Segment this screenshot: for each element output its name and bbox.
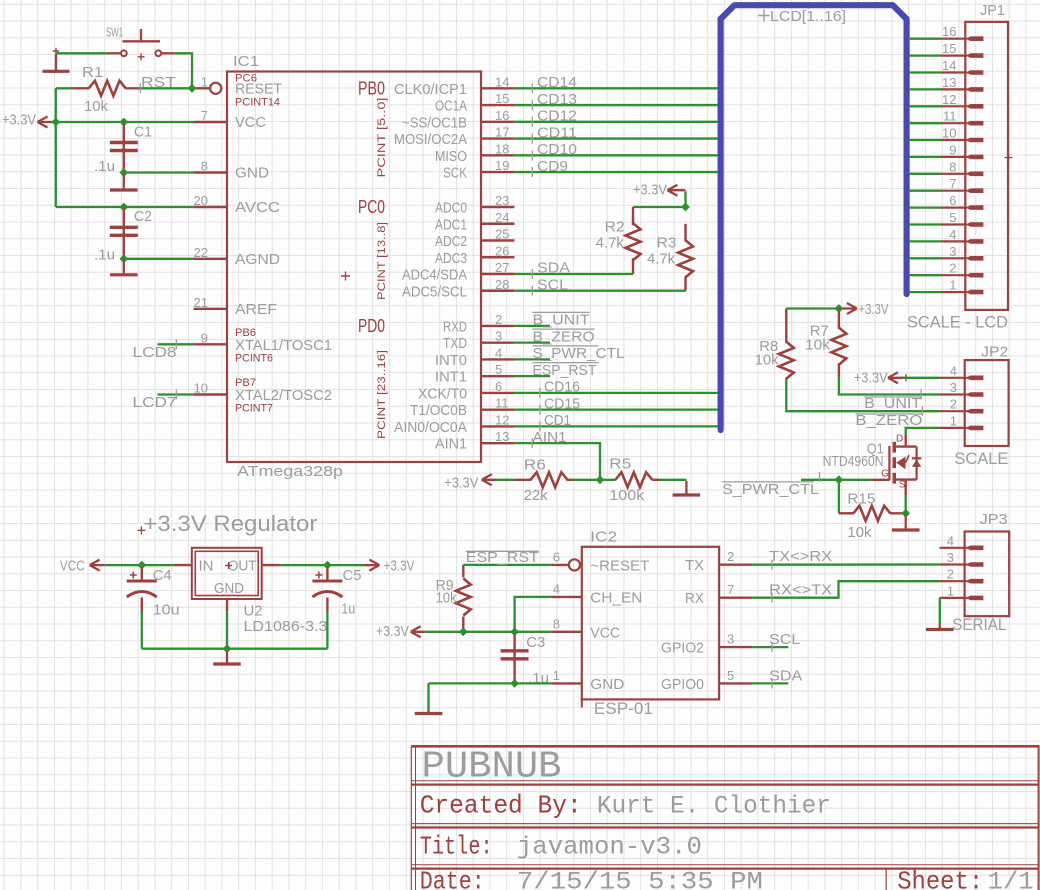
IC2 pin 5 stub bbox=[719, 682, 752, 684]
wire R8 to B_ZERO bbox=[786, 379, 939, 411]
svg-text:24: 24 bbox=[495, 210, 509, 225]
supply +3.3V arrow above R7 bbox=[842, 303, 857, 314]
IC2 pin 3 stub bbox=[719, 646, 752, 648]
svg-text:4: 4 bbox=[949, 227, 956, 242]
svg-text:Title:: Title: bbox=[420, 832, 493, 862]
svg-text:ADC2: ADC2 bbox=[435, 233, 467, 250]
svg-text:GND: GND bbox=[590, 676, 624, 693]
svg-text:ESP-01: ESP-01 bbox=[594, 699, 653, 718]
svg-text:PCINT [23..16]: PCINT [23..16] bbox=[376, 350, 388, 439]
wire SDA at IC2 bbox=[752, 682, 788, 684]
wire R6-R5 bbox=[573, 479, 616, 481]
svg-text:1: 1 bbox=[947, 583, 954, 598]
svg-text:10k: 10k bbox=[755, 352, 779, 369]
JP1 origin cross bbox=[1005, 154, 1013, 162]
svg-text:3: 3 bbox=[947, 550, 954, 565]
SW1 left pin stub bbox=[107, 52, 120, 54]
wire CD14 bbox=[514, 87, 717, 89]
svg-text:CH_EN: CH_EN bbox=[590, 589, 642, 606]
svg-text:6: 6 bbox=[495, 379, 502, 394]
IC1 pin 4 stub bbox=[481, 358, 514, 360]
wire CD11 bbox=[514, 137, 717, 139]
svg-text:10: 10 bbox=[942, 126, 956, 141]
svg-text:23: 23 bbox=[495, 193, 509, 208]
wire S_PWR_CTL bbox=[514, 358, 550, 360]
IC1 pin 25 stub bbox=[481, 239, 514, 241]
svg-text:AIN0/OC0A: AIN0/OC0A bbox=[394, 419, 467, 436]
svg-text:LCD7: LCD7 bbox=[133, 394, 177, 411]
junction AIN1 divider bbox=[596, 475, 605, 484]
wire LCD7 bbox=[158, 393, 194, 395]
wire U2 OUT bbox=[281, 564, 369, 566]
svg-text:18: 18 bbox=[495, 141, 509, 156]
svg-text:SCL: SCL bbox=[537, 276, 568, 293]
svg-text:2: 2 bbox=[495, 312, 502, 327]
svg-text:17: 17 bbox=[495, 125, 509, 140]
svg-text:4.7k: 4.7k bbox=[596, 235, 624, 252]
svg-text:OC1A: OC1A bbox=[435, 98, 467, 115]
IC2 pin 8 stub bbox=[552, 631, 582, 633]
junction C3/GND row bbox=[510, 679, 519, 688]
IC1 pin 5 stub bbox=[481, 375, 514, 377]
IC1 pin 10 stub bbox=[194, 393, 227, 395]
svg-text:PCINT [5..0]: PCINT [5..0] bbox=[376, 98, 388, 178]
svg-text:PCINT7: PCINT7 bbox=[235, 403, 273, 415]
JP1 pin 11 bbox=[941, 122, 967, 124]
ground at R5 bbox=[685, 481, 687, 495]
svg-text:U2: U2 bbox=[244, 603, 263, 620]
wire CD16 bbox=[514, 392, 717, 394]
JP1 pin 4 bbox=[941, 240, 967, 242]
svg-text:S: S bbox=[899, 479, 906, 490]
JP3 pin 1 bbox=[940, 597, 968, 599]
regulator U2 box bbox=[192, 548, 262, 599]
svg-text:C5: C5 bbox=[343, 567, 362, 584]
ground below Q1 bbox=[905, 515, 907, 531]
IC1 origin cross bbox=[341, 272, 350, 281]
svg-text:16: 16 bbox=[942, 24, 956, 39]
svg-text:~SS/OC1B: ~SS/OC1B bbox=[402, 114, 467, 131]
svg-text:.1u: .1u bbox=[94, 247, 115, 264]
wire RST right bbox=[140, 87, 194, 89]
wire bus to JP1 pin 3 bbox=[909, 257, 942, 259]
svg-text:1: 1 bbox=[950, 413, 957, 428]
IC1 pin 13 stub bbox=[481, 442, 514, 444]
svg-text:1: 1 bbox=[201, 74, 208, 89]
svg-text:PD0: PD0 bbox=[358, 316, 385, 336]
wire CD1 bbox=[514, 425, 717, 427]
svg-text:GND: GND bbox=[214, 580, 244, 597]
svg-text:22: 22 bbox=[194, 245, 208, 260]
svg-text:B_UNIT: B_UNIT bbox=[864, 395, 921, 412]
svg-text:Date:: Date: bbox=[420, 867, 485, 890]
resistor R9 bbox=[462, 565, 464, 578]
wire bus to JP1 pin 1 bbox=[909, 291, 942, 293]
wire CH_EN bbox=[515, 597, 552, 632]
wire B_ZERO bbox=[514, 341, 550, 343]
svg-text:MOSI/OC2A: MOSI/OC2A bbox=[394, 131, 467, 148]
IC1 pin 1 stub with inversion circle bbox=[194, 87, 210, 89]
svg-text:+3.3V: +3.3V bbox=[376, 623, 409, 640]
svg-text:27: 27 bbox=[495, 260, 509, 275]
svg-text:3: 3 bbox=[950, 380, 957, 395]
U2 pin IN stub bbox=[174, 564, 192, 566]
IC2 pin 2 stub bbox=[719, 564, 752, 566]
svg-text:NTD4960N: NTD4960N bbox=[823, 453, 884, 470]
JP3 pin 3 bbox=[940, 563, 968, 565]
svg-text:AGND: AGND bbox=[235, 251, 280, 268]
JP1 pin 12 bbox=[941, 105, 967, 107]
wire +3.3V IC2 VCC row bbox=[426, 631, 552, 633]
svg-text:RST: RST bbox=[141, 74, 176, 91]
wire ESP_RST to IC2 bbox=[463, 564, 552, 566]
capacitor C3 bbox=[513, 634, 515, 682]
svg-text:2: 2 bbox=[949, 261, 956, 276]
svg-text:ADC3: ADC3 bbox=[435, 250, 467, 267]
svg-text:9: 9 bbox=[949, 142, 956, 157]
svg-text:13: 13 bbox=[495, 429, 509, 444]
JP2 pin 3 bbox=[940, 393, 968, 395]
JP1 pin 7 bbox=[941, 190, 967, 192]
svg-text:2: 2 bbox=[950, 397, 957, 412]
svg-text:LD1086-3.3: LD1086-3.3 bbox=[244, 618, 328, 635]
svg-text:AREF: AREF bbox=[235, 301, 277, 318]
wire GND row down bbox=[427, 683, 429, 710]
junction OUT/C5 bbox=[323, 561, 332, 570]
svg-text:PCINT14: PCINT14 bbox=[235, 97, 280, 109]
svg-text:RXD: RXD bbox=[443, 318, 467, 335]
svg-text:S_PWR_CTL: S_PWR_CTL bbox=[533, 345, 625, 362]
svg-text:26: 26 bbox=[495, 243, 509, 258]
svg-text:CD12: CD12 bbox=[537, 108, 577, 125]
supply VCC arrow bbox=[90, 560, 105, 571]
wire LCD8 bbox=[158, 343, 194, 345]
wire bus to JP1 pin 7 bbox=[909, 190, 942, 192]
wire RX<>TX bbox=[752, 581, 939, 598]
svg-text:+3.3V Regulator: +3.3V Regulator bbox=[143, 511, 317, 536]
svg-text:3: 3 bbox=[727, 632, 734, 647]
svg-text:15: 15 bbox=[495, 91, 509, 106]
wire bus to JP1 pin 11 bbox=[909, 122, 942, 124]
svg-text:PC0: PC0 bbox=[358, 197, 385, 217]
svg-text:7: 7 bbox=[201, 108, 208, 123]
svg-text:Sheet:: Sheet: bbox=[897, 867, 983, 890]
svg-text:11: 11 bbox=[943, 109, 957, 124]
resistor R8 bbox=[785, 309, 787, 343]
svg-text:.1u: .1u bbox=[94, 158, 115, 175]
svg-text:D: D bbox=[896, 434, 903, 445]
resistor R7 bbox=[838, 309, 840, 329]
wire R5 to ground bbox=[660, 479, 686, 481]
IC1 pin 11 stub bbox=[481, 408, 514, 410]
svg-text:CD9: CD9 bbox=[537, 158, 568, 175]
svg-text:SERIAL: SERIAL bbox=[952, 615, 1006, 634]
svg-text:C1: C1 bbox=[134, 124, 152, 141]
JP2 pin 4 bbox=[940, 377, 968, 379]
svg-text:R2: R2 bbox=[605, 219, 625, 236]
IC1 pin 21 stub bbox=[194, 308, 227, 310]
wire JP3 pin1 to ground bbox=[939, 598, 941, 625]
svg-text:CD16: CD16 bbox=[544, 379, 580, 396]
svg-text:1: 1 bbox=[553, 668, 560, 683]
wire U2 GND down bbox=[226, 611, 228, 649]
junction gate/R15 bbox=[835, 475, 844, 484]
svg-text:R6: R6 bbox=[524, 456, 546, 473]
supply +3.3V arrow at VCC bbox=[38, 117, 53, 128]
IC1 pin 17 stub bbox=[481, 137, 514, 139]
JP1 pin 6 bbox=[941, 207, 967, 209]
svg-text:RESET: RESET bbox=[235, 81, 282, 98]
wire bus to JP1 pin 8 bbox=[909, 173, 942, 175]
junction VCC/left rail bbox=[51, 118, 60, 127]
svg-text:ATmega328p: ATmega328p bbox=[237, 463, 343, 480]
JP1 pin 13 bbox=[941, 88, 967, 90]
wire bus to JP1 pin 13 bbox=[909, 88, 942, 90]
IC2 pin 6 stub with inversion circle bbox=[552, 564, 568, 566]
junction R9/VCC row bbox=[459, 627, 468, 636]
IC1 pin 14 stub bbox=[481, 87, 514, 89]
svg-text:IC1: IC1 bbox=[233, 53, 259, 70]
wire bus to JP1 pin 6 bbox=[909, 206, 942, 208]
ground below U2 bbox=[226, 650, 228, 664]
ground at SW1 bbox=[55, 54, 57, 71]
svg-text:4: 4 bbox=[495, 345, 502, 360]
svg-text:+3.3V: +3.3V bbox=[384, 558, 415, 575]
IC1 pin 20 stub bbox=[194, 206, 227, 208]
svg-text:14: 14 bbox=[942, 58, 956, 73]
svg-text:javamon-v3.0: javamon-v3.0 bbox=[517, 833, 702, 862]
JP3 pin 4 bbox=[940, 547, 968, 549]
wire CD12 bbox=[514, 121, 717, 123]
IC1 pin 12 stub bbox=[481, 425, 514, 427]
svg-text:RX<>TX: RX<>TX bbox=[769, 582, 832, 599]
resistor R3 bbox=[684, 224, 686, 242]
svg-text:ADC1: ADC1 bbox=[435, 216, 467, 233]
svg-text:R15: R15 bbox=[847, 490, 875, 507]
svg-text:INT1: INT1 bbox=[435, 369, 467, 386]
ground at JP3 bbox=[939, 625, 941, 630]
svg-text:3: 3 bbox=[495, 329, 502, 344]
svg-text:XCK/T0: XCK/T0 bbox=[418, 385, 467, 402]
svg-text:PB0: PB0 bbox=[358, 78, 385, 98]
svg-text:21: 21 bbox=[194, 295, 208, 310]
IC1 pin 18 stub bbox=[481, 154, 514, 156]
JP1 pin 1 bbox=[941, 291, 967, 293]
switch SW1 bbox=[121, 50, 127, 56]
resistor R15 bbox=[839, 512, 854, 514]
svg-text:GPIO0: GPIO0 bbox=[661, 676, 704, 693]
wire SDA bbox=[514, 273, 633, 275]
svg-text:TXD: TXD bbox=[443, 335, 467, 352]
svg-text:7/15/15 5:35 PM: 7/15/15 5:35 PM bbox=[517, 868, 763, 890]
svg-text:1: 1 bbox=[949, 278, 956, 293]
svg-text:ADC5/SCL: ADC5/SCL bbox=[402, 283, 467, 300]
wire bus to JP1 pin 4 bbox=[909, 240, 942, 242]
wire CD10 bbox=[514, 154, 717, 156]
svg-text:PUBNUB: PUBNUB bbox=[422, 746, 562, 789]
svg-text:10u: 10u bbox=[153, 602, 180, 619]
svg-text:2: 2 bbox=[727, 549, 734, 564]
svg-text:4.7k: 4.7k bbox=[647, 251, 675, 268]
junction VCC/C4 bbox=[137, 561, 146, 570]
JP1 pin 2 bbox=[941, 274, 967, 276]
svg-text:VCC: VCC bbox=[590, 624, 620, 641]
IC1 pin 9 stub bbox=[194, 343, 227, 345]
svg-text:CD1: CD1 bbox=[544, 412, 571, 429]
svg-text:4: 4 bbox=[950, 363, 957, 378]
title block frame bbox=[411, 745, 1039, 748]
svg-text:CD13: CD13 bbox=[537, 91, 577, 108]
supply +3.3V arrow at R6 bbox=[482, 474, 497, 485]
wire C5 down bbox=[326, 611, 328, 649]
resistor R5 bbox=[615, 472, 652, 487]
svg-text:+3.3V: +3.3V bbox=[859, 301, 889, 318]
svg-text:Created By:: Created By: bbox=[420, 791, 582, 821]
svg-text:12: 12 bbox=[495, 412, 509, 427]
wire S_PWR_CTL bbox=[801, 479, 872, 481]
svg-text:G: G bbox=[881, 469, 889, 480]
IC1 pin 23 stub bbox=[481, 206, 514, 208]
capacitor C2 bbox=[123, 209, 125, 257]
junction C3/VCC row bbox=[510, 627, 519, 636]
wire bus to JP1 pin 15 bbox=[909, 54, 942, 56]
svg-text:6: 6 bbox=[553, 549, 560, 564]
svg-text:10k: 10k bbox=[436, 590, 457, 607]
svg-text:3: 3 bbox=[949, 244, 956, 259]
wire bus to JP1 pin 12 bbox=[909, 105, 942, 107]
svg-text:C3: C3 bbox=[526, 634, 545, 651]
IC2 pin 1 stub bbox=[552, 682, 582, 684]
svg-text:ADC0: ADC0 bbox=[435, 200, 467, 217]
svg-text:LCD8: LCD8 bbox=[133, 344, 177, 361]
resistor R1 bbox=[89, 81, 126, 96]
wire RST left bbox=[56, 87, 72, 89]
svg-text:5: 5 bbox=[949, 210, 956, 225]
wire +3.3V R7/R8 row bbox=[786, 307, 839, 309]
junction +3.3V/R3 bbox=[681, 203, 690, 212]
svg-text:1u: 1u bbox=[341, 601, 355, 618]
JP1 pin 9 bbox=[941, 156, 967, 158]
wire SW1 left bbox=[55, 52, 107, 54]
IC1 pin 8 stub bbox=[194, 171, 227, 173]
svg-text:R5: R5 bbox=[609, 455, 631, 472]
IC1 pin 27 stub bbox=[481, 273, 514, 275]
svg-text:+3.3V: +3.3V bbox=[854, 369, 888, 386]
connector JP2 box bbox=[965, 360, 1009, 446]
SW1 right pin stub bbox=[162, 52, 175, 54]
JP2 pin 2 bbox=[940, 410, 968, 412]
IC IC2 box ESP-01 bbox=[582, 547, 719, 700]
svg-text:Kurt E. Clothier: Kurt E. Clothier bbox=[597, 792, 831, 821]
wire bus to JP1 pin 16 bbox=[909, 38, 942, 40]
svg-text:SCK: SCK bbox=[443, 165, 467, 182]
ground below IC2 rail bbox=[427, 710, 429, 714]
wire JP2 pin1 to Q1 drain bbox=[906, 428, 940, 435]
ground below C1 bbox=[123, 174, 125, 190]
svg-text:AVCC: AVCC bbox=[235, 199, 280, 216]
wire left vertical rail bbox=[55, 88, 57, 207]
svg-text:19: 19 bbox=[495, 158, 509, 173]
svg-text:CD10: CD10 bbox=[537, 141, 577, 158]
svg-text:JP3: JP3 bbox=[980, 511, 1008, 528]
svg-text:CLK0/ICP1: CLK0/ICP1 bbox=[394, 81, 467, 98]
IC1 pin 28 stub bbox=[481, 290, 514, 292]
IC1 pin 2 stub bbox=[481, 325, 514, 327]
wire +3.3V to R6 bbox=[497, 479, 516, 481]
transistor Q1 NTD4960N bbox=[905, 435, 907, 447]
svg-text:PCINT6: PCINT6 bbox=[235, 353, 273, 365]
svg-text:C2: C2 bbox=[134, 208, 152, 225]
svg-text:VCC: VCC bbox=[60, 558, 85, 575]
junction GND/C1 bbox=[119, 168, 128, 177]
JP1 pin 5 bbox=[941, 223, 967, 225]
svg-text:CD11: CD11 bbox=[537, 124, 577, 141]
wire GND row pin8 bbox=[124, 171, 194, 173]
connector JP1 box bbox=[965, 22, 1008, 310]
wire AIN1 bbox=[514, 443, 600, 480]
svg-text:8: 8 bbox=[201, 159, 208, 174]
svg-text:13: 13 bbox=[942, 75, 956, 90]
supply +3.3V arrow at IC2 VCC bbox=[411, 626, 426, 637]
capacitor C4 bbox=[141, 567, 143, 580]
svg-text:ESP_RST: ESP_RST bbox=[533, 362, 597, 379]
svg-text:INT0: INT0 bbox=[435, 352, 467, 369]
svg-text:XTAL2/TOSC2: XTAL2/TOSC2 bbox=[235, 387, 332, 404]
svg-text:+3.3V: +3.3V bbox=[2, 112, 36, 129]
svg-text:8: 8 bbox=[553, 616, 560, 631]
resistor R2 bbox=[632, 207, 634, 225]
JP1 pin 3 bbox=[941, 257, 967, 259]
svg-text:IN: IN bbox=[199, 557, 214, 574]
title block inner lines bbox=[411, 780, 1039, 782]
svg-text:JP1: JP1 bbox=[980, 2, 1005, 19]
junction R15/source bbox=[901, 509, 910, 518]
junction R7 top bbox=[835, 304, 844, 313]
svg-text:10k: 10k bbox=[84, 98, 108, 115]
wire AGND row pin22 bbox=[124, 258, 194, 260]
svg-text:2: 2 bbox=[947, 567, 954, 582]
wire +3.3V to R2/R3 bbox=[633, 191, 686, 207]
wire bus to JP1 pin 5 bbox=[909, 223, 942, 225]
IC2 pin 4 stub bbox=[552, 596, 582, 598]
svg-text:11: 11 bbox=[495, 396, 509, 411]
junction ground rail bbox=[223, 644, 232, 653]
JP1 pin 14 bbox=[941, 71, 967, 73]
svg-text:SDA: SDA bbox=[769, 667, 802, 684]
wire bus to JP1 pin 10 bbox=[909, 139, 942, 141]
IC1 pin 19 stub bbox=[481, 171, 514, 173]
svg-text:16: 16 bbox=[495, 108, 509, 123]
wire R7 to B_UNIT bbox=[839, 377, 940, 395]
wire bus to JP1 pin 2 bbox=[909, 274, 942, 276]
wire +3.3V to JP2 pin4 bbox=[903, 377, 940, 379]
wire bus to JP1 pin 9 bbox=[909, 156, 942, 158]
svg-text:10k: 10k bbox=[847, 524, 871, 541]
IC2 pin 7 stub bbox=[719, 597, 752, 599]
IC1 pin 26 stub bbox=[481, 256, 514, 258]
regulator frame origin cross bbox=[137, 526, 145, 534]
switch SW1 origin cross bbox=[138, 53, 145, 60]
svg-text:SW1: SW1 bbox=[106, 25, 123, 40]
wire ground rail under U2 bbox=[142, 648, 328, 650]
JP1 pin 15 bbox=[941, 54, 967, 56]
svg-text:SCALE: SCALE bbox=[954, 449, 1008, 468]
wire CD13 bbox=[514, 104, 717, 106]
IC IC1 box ATmega328p bbox=[227, 72, 481, 463]
wire C4 down bbox=[141, 611, 143, 649]
svg-text:IC2: IC2 bbox=[590, 529, 617, 546]
JP1 pin 16 bbox=[941, 38, 967, 40]
